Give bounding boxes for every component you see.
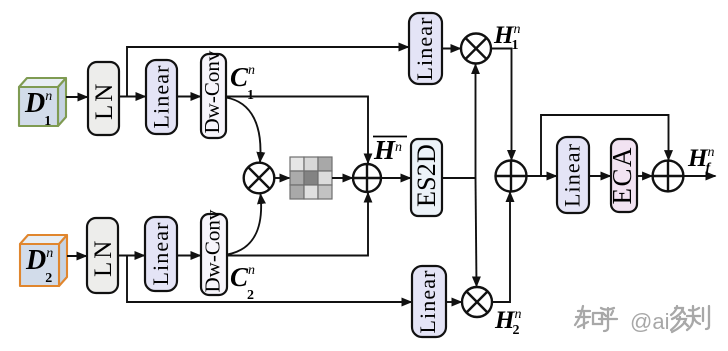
block ES2D: [411, 139, 442, 216]
wire skip connection: [541, 115, 669, 176]
wire branch down from LN2 output: [127, 256, 412, 303]
multiply circle (center): [244, 163, 275, 194]
glyph zhi: [575, 306, 590, 328]
svg-text:ES2D: ES2D: [412, 144, 441, 207]
wire cube D1 to LN: [66, 96, 88, 98]
wire Linear-right to ECA: [589, 175, 611, 177]
wire Linear2 to Dw-Conv2: [177, 255, 201, 257]
svg-text:@ai: @ai: [630, 309, 669, 334]
glyph duo: [671, 306, 688, 332]
block LN (top): [88, 62, 119, 135]
wire branch up from LN output: [127, 47, 409, 97]
wire C2 to plus circle (up at x=368): [227, 193, 368, 256]
block Linear (bottom-left): [145, 217, 177, 291]
plus circle final: [653, 161, 684, 192]
svg-text:ECA: ECA: [607, 146, 637, 205]
wire C1 to plus circle (down at x=368): [226, 97, 368, 164]
block Dw-Conv (bottom): [201, 209, 228, 295]
svg-text:LN: LN: [91, 81, 118, 120]
svg-text:Dw-Conv: Dw-Conv: [201, 209, 225, 292]
block Linear (top-left): [146, 60, 177, 134]
block Linear (bottom-right): [412, 266, 446, 337]
wire multiply to grid: [274, 177, 290, 179]
wire output Hf: [683, 175, 715, 177]
svg-text:Hn2: Hn2: [494, 307, 521, 338]
glyph li: [687, 306, 709, 330]
multiply circle (top H1): [461, 34, 491, 64]
svg-text:Linear: Linear: [149, 64, 174, 128]
wire Linear-top to multiply-top: [442, 48, 461, 50]
svg-text:Linear: Linear: [415, 269, 440, 333]
wire curve Dw-Conv2 to multiply: [227, 194, 261, 255]
wire cube D2 to LN: [67, 255, 87, 257]
plus circle (H bar): [353, 164, 381, 192]
wire curve Dw-Conv1 to multiply: [226, 98, 260, 163]
wire multiply-bottom to plus2: [492, 192, 510, 302]
block ECA: [607, 139, 637, 212]
wire Linear-bottom to multiply-bottom: [446, 301, 462, 303]
wire multiply-top to plus2: [491, 49, 512, 161]
plus circle 2 (sum H1+H2): [496, 161, 527, 192]
wire ES2D to junction: [442, 177, 476, 179]
wire plus2 to Linear-right: [527, 175, 557, 177]
svg-text:LN: LN: [90, 238, 117, 277]
svg-text:Hn: Hn: [373, 135, 402, 165]
svg-text:Hnf: Hnf: [687, 145, 714, 176]
wire ECA to plus-final: [637, 175, 652, 177]
block LN (bottom): [87, 218, 118, 293]
cube D2: [20, 235, 67, 286]
svg-text:Dw-Conv: Dw-Conv: [200, 50, 224, 133]
block Linear (right): [557, 137, 589, 213]
wire junction vertical to both multipliers: [475, 64, 477, 178]
wire LN to Linear (top row): [119, 96, 146, 98]
block Linear (top-right): [409, 13, 442, 84]
label Hbar^n: [373, 135, 407, 165]
wire grid to plus: [332, 177, 353, 179]
wire Linear to Dw-Conv (top): [177, 96, 201, 98]
svg-text:Linear: Linear: [412, 16, 437, 80]
svg-text:Cn2: Cn2: [230, 262, 255, 303]
watermark zhihu @ai duoli: [575, 306, 709, 332]
wire plus to ES2D: [381, 177, 411, 179]
wire LN2 to Linear2: [118, 255, 145, 257]
svg-text:Linear: Linear: [560, 143, 585, 207]
multiply circle (bottom H2): [462, 287, 492, 317]
glyph hu: [599, 308, 617, 331]
cube D1: [19, 78, 66, 126]
svg-text:Linear: Linear: [148, 221, 173, 285]
attention grid 3x3: [290, 157, 332, 199]
block Dw-Conv (top): [200, 50, 226, 138]
